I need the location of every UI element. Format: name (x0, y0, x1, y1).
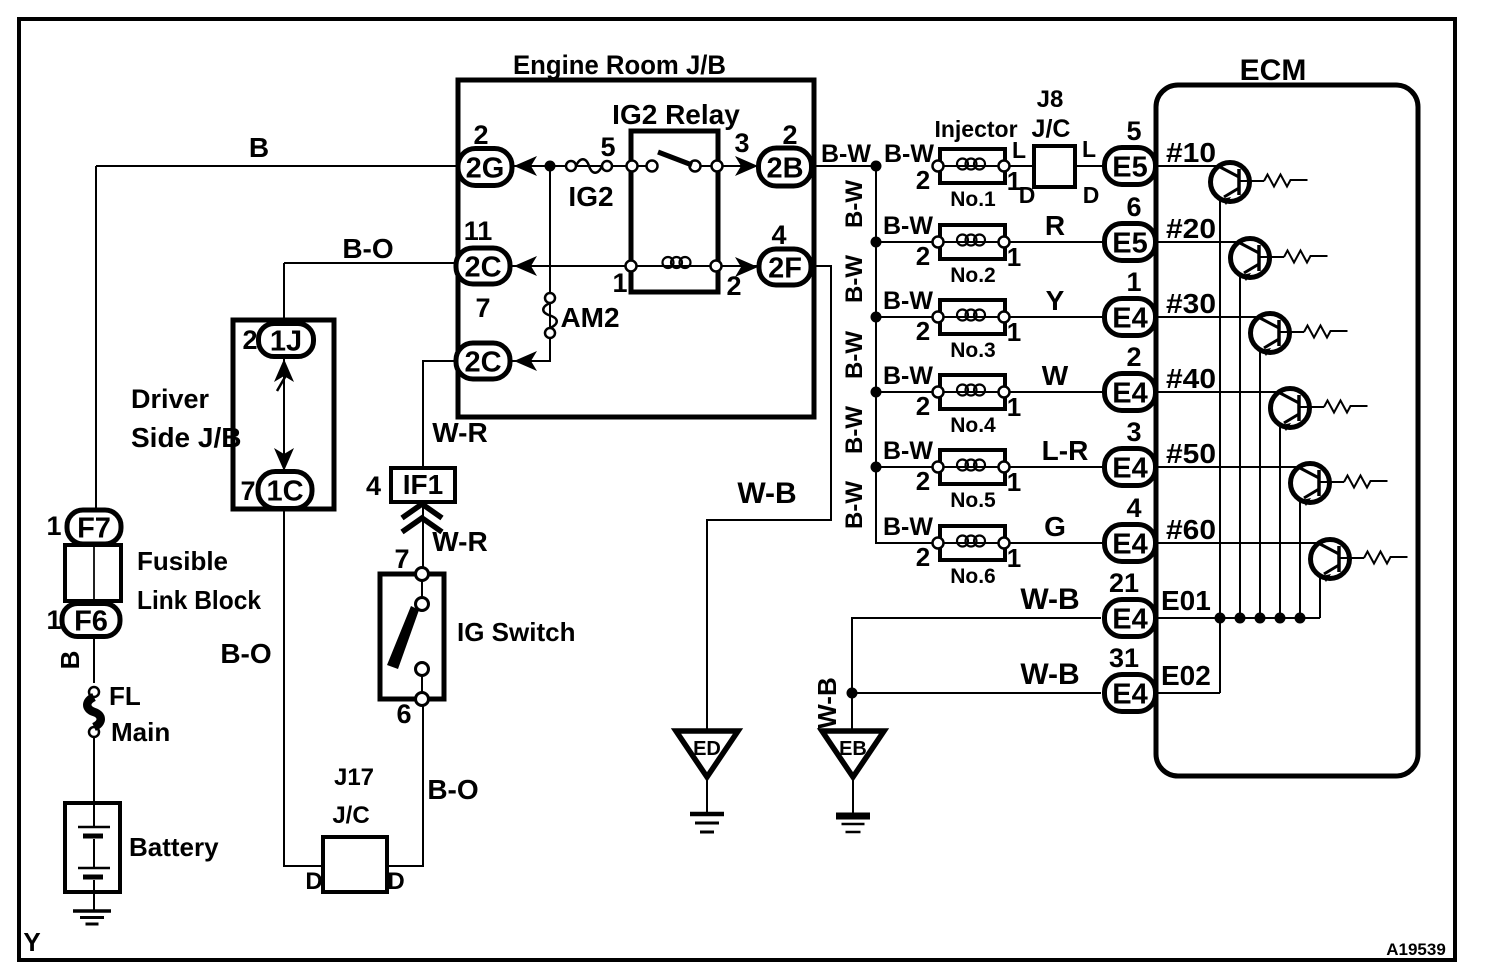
svg-text:E4: E4 (1112, 302, 1147, 334)
svg-text:#30: #30 (1166, 288, 1216, 319)
svg-text:E4: E4 (1112, 678, 1147, 710)
svg-text:W-B: W-B (1020, 658, 1079, 691)
svg-text:Y: Y (1046, 285, 1065, 316)
svg-text:7: 7 (240, 476, 255, 506)
svg-text:7: 7 (475, 293, 490, 323)
svg-text:2: 2 (916, 466, 930, 496)
svg-text:No.3: No.3 (950, 339, 996, 362)
svg-text:B-O: B-O (220, 638, 271, 669)
svg-text:2B: 2B (766, 152, 803, 184)
svg-text:1: 1 (1007, 317, 1021, 347)
svg-text:2: 2 (473, 120, 488, 150)
svg-text:1C: 1C (266, 475, 303, 507)
svg-text:2: 2 (916, 542, 930, 572)
svg-text:B-O: B-O (342, 233, 393, 264)
svg-text:B-W: B-W (841, 331, 868, 379)
svg-text:1: 1 (46, 605, 61, 635)
svg-text:5: 5 (600, 132, 615, 162)
svg-text:4: 4 (366, 471, 381, 501)
svg-text:IG2 Relay: IG2 Relay (612, 99, 740, 130)
svg-text:L-R: L-R (1042, 435, 1089, 466)
svg-text:D: D (387, 868, 404, 895)
svg-text:#60: #60 (1166, 514, 1216, 545)
svg-text:ED: ED (693, 738, 721, 760)
svg-text:ECM: ECM (1240, 54, 1307, 87)
svg-text:1: 1 (46, 511, 61, 541)
svg-text:Injector: Injector (934, 116, 1017, 142)
svg-text:G: G (1044, 511, 1066, 542)
svg-text:B-W: B-W (883, 513, 933, 541)
svg-text:2: 2 (916, 391, 930, 421)
svg-text:B-W: B-W (883, 287, 933, 315)
svg-text:W-R: W-R (432, 417, 487, 448)
svg-text:J/C: J/C (332, 802, 369, 829)
svg-text:E4: E4 (1112, 603, 1147, 635)
svg-text:W-R: W-R (432, 526, 487, 557)
svg-text:1J: 1J (270, 325, 302, 357)
svg-text:Driver: Driver (131, 384, 210, 414)
svg-text:E5: E5 (1112, 151, 1147, 183)
svg-text:#40: #40 (1166, 363, 1216, 394)
svg-text:11: 11 (464, 216, 493, 246)
svg-text:IF1: IF1 (403, 469, 443, 500)
svg-text:E4: E4 (1112, 528, 1147, 560)
svg-text:B-W: B-W (841, 255, 868, 303)
svg-text:No.6: No.6 (950, 565, 996, 588)
svg-text:4: 4 (1126, 493, 1141, 523)
svg-text:2: 2 (916, 165, 930, 195)
svg-text:B-W: B-W (883, 362, 933, 390)
svg-text:E4: E4 (1112, 452, 1147, 484)
svg-text:1: 1 (1007, 543, 1021, 573)
svg-text:J17: J17 (334, 764, 374, 791)
svg-text:J8: J8 (1037, 86, 1064, 113)
svg-text:2: 2 (242, 325, 257, 355)
svg-text:1: 1 (1126, 267, 1141, 297)
svg-text:W-B: W-B (812, 677, 842, 728)
svg-text:F6: F6 (74, 605, 108, 637)
svg-text:1: 1 (612, 268, 627, 298)
svg-text:W: W (1042, 360, 1069, 391)
svg-text:No.2: No.2 (950, 264, 996, 287)
svg-text:B-O: B-O (427, 774, 478, 805)
svg-text:FL: FL (109, 681, 141, 711)
svg-text:B: B (55, 651, 85, 670)
svg-text:D: D (305, 868, 322, 895)
svg-text:2: 2 (916, 316, 930, 346)
svg-text:#50: #50 (1166, 438, 1216, 469)
svg-text:2: 2 (726, 271, 741, 301)
svg-text:Y: Y (23, 927, 40, 957)
svg-text:2: 2 (782, 120, 797, 150)
svg-text:6: 6 (1126, 192, 1141, 222)
svg-text:2C: 2C (464, 251, 501, 283)
svg-text:1: 1 (1007, 392, 1021, 422)
svg-text:2: 2 (916, 241, 930, 271)
svg-text:D: D (1019, 182, 1036, 208)
svg-text:No.1: No.1 (950, 188, 996, 211)
svg-text:2C: 2C (464, 346, 501, 378)
svg-text:7: 7 (394, 544, 409, 574)
svg-text:Battery: Battery (129, 832, 219, 862)
svg-text:IG Switch: IG Switch (457, 617, 575, 647)
svg-text:No.4: No.4 (950, 414, 996, 437)
svg-text:1: 1 (1007, 242, 1021, 272)
svg-text:AM2: AM2 (560, 302, 619, 333)
svg-text:31: 31 (1109, 643, 1139, 673)
svg-text:A19539: A19539 (1386, 940, 1446, 959)
svg-text:21: 21 (1109, 568, 1139, 598)
svg-text:2: 2 (1126, 342, 1141, 372)
svg-text:E5: E5 (1112, 227, 1147, 259)
svg-text:1: 1 (1007, 467, 1021, 497)
svg-text:2F: 2F (768, 252, 802, 284)
svg-text:L: L (1082, 136, 1096, 162)
svg-text:E01: E01 (1161, 585, 1211, 616)
svg-text:#10: #10 (1166, 137, 1216, 168)
svg-text:6: 6 (396, 699, 411, 729)
svg-text:E4: E4 (1112, 377, 1147, 409)
svg-text:2G: 2G (466, 152, 505, 184)
svg-text:3: 3 (734, 128, 749, 158)
svg-text:Main: Main (111, 717, 170, 747)
svg-text:Fusible: Fusible (137, 546, 228, 576)
svg-text:No.5: No.5 (950, 489, 996, 512)
svg-text:B-W: B-W (821, 140, 871, 168)
svg-text:3: 3 (1126, 417, 1141, 447)
svg-text:B-W: B-W (883, 212, 933, 240)
svg-text:E02: E02 (1161, 660, 1211, 691)
svg-text:F7: F7 (77, 512, 111, 544)
svg-text:Engine Room J/B: Engine Room J/B (513, 50, 726, 80)
svg-text:Link Block: Link Block (137, 585, 261, 615)
svg-text:J/C: J/C (1032, 115, 1071, 143)
svg-text:B-W: B-W (883, 437, 933, 465)
svg-text:Side J/B: Side J/B (131, 422, 241, 453)
svg-text:B-W: B-W (841, 481, 868, 529)
svg-text:B: B (249, 132, 269, 163)
svg-text:#20: #20 (1166, 213, 1216, 244)
svg-text:5: 5 (1126, 116, 1141, 146)
svg-text:B-W: B-W (841, 406, 868, 454)
svg-text:D: D (1083, 182, 1100, 208)
svg-text:W-B: W-B (1020, 583, 1079, 616)
svg-text:EB: EB (839, 738, 867, 760)
svg-text:W-B: W-B (737, 477, 796, 510)
svg-text:4: 4 (771, 220, 786, 250)
svg-text:B-W: B-W (884, 140, 934, 168)
svg-text:R: R (1045, 210, 1065, 241)
svg-text:B-W: B-W (841, 180, 868, 228)
svg-text:IG2: IG2 (568, 181, 613, 212)
